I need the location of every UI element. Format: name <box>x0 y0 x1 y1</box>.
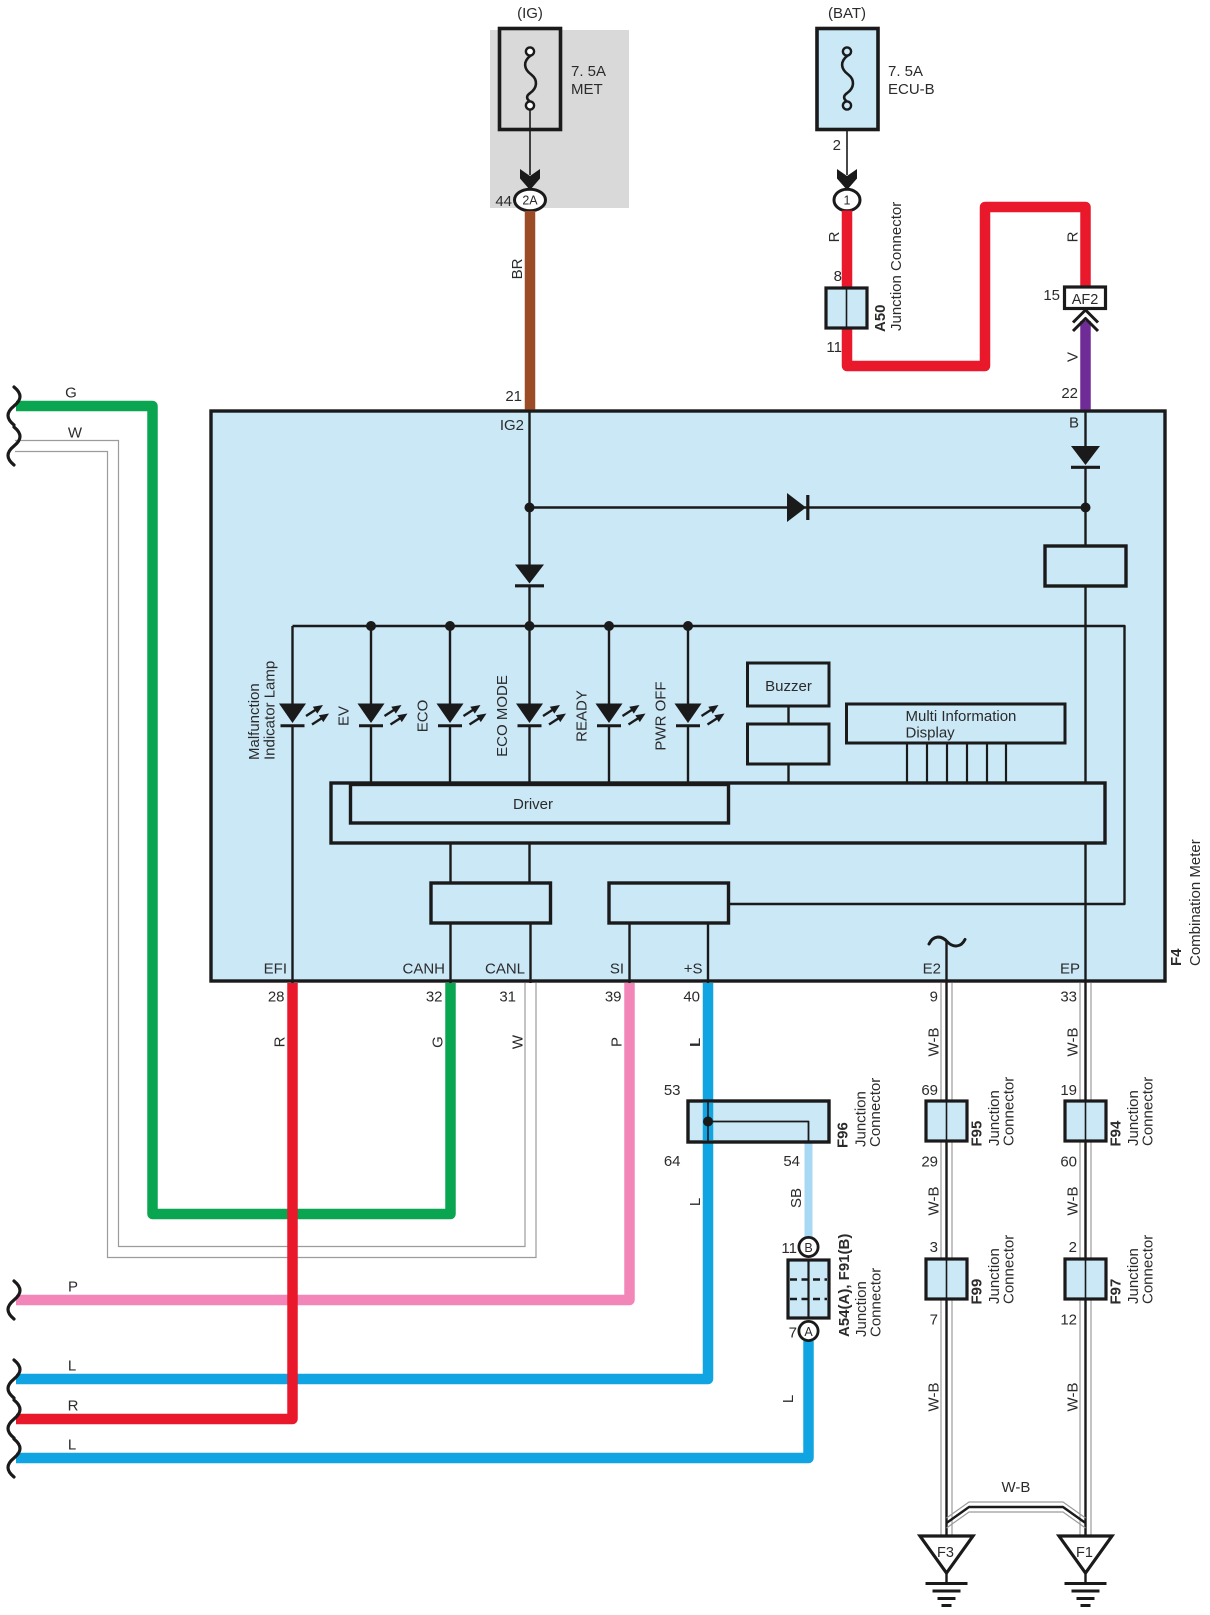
wire W-B (EP) <box>1079 983 1081 1536</box>
cross line with diode D3 <box>530 506 1086 508</box>
bus junction node x=688 <box>683 621 693 631</box>
CAN transceiver block <box>431 883 551 923</box>
LED ECO <box>437 704 487 726</box>
MID bus line x=947 <box>946 743 948 783</box>
svg-text:Driver: Driver <box>513 796 553 813</box>
svg-text:R: R <box>272 1036 289 1047</box>
svg-text:L: L <box>687 1198 704 1206</box>
serial block <box>609 883 729 923</box>
LED READY <box>596 704 646 726</box>
LED Malfunction Indicator Lamp <box>279 704 329 726</box>
svg-text:W-B: W-B <box>1065 1383 1082 1412</box>
svg-text:F1: F1 <box>1076 1545 1093 1561</box>
connector pin 1 <box>834 189 860 211</box>
svg-text:P: P <box>68 1279 78 1296</box>
wire BR <box>525 211 536 410</box>
svg-text:W-B: W-B <box>1065 1187 1082 1216</box>
break symbol / label P <box>8 1281 20 1319</box>
svg-text:W-B: W-B <box>1002 1479 1031 1496</box>
svg-text:JunctionConnector: JunctionConnector <box>986 1077 1018 1146</box>
wire SB <box>805 1142 813 1238</box>
wire fuse MET to connector 2A <box>529 110 531 176</box>
svg-text:EP: EP <box>1060 961 1080 978</box>
svg-text:44: 44 <box>495 193 512 210</box>
svg-text:R: R <box>68 1398 79 1415</box>
B internal line <box>1084 411 1086 447</box>
svg-text:L: L <box>687 1039 704 1047</box>
wire G (CANH) <box>16 406 451 1214</box>
break symbol / label L <box>8 1360 20 1398</box>
bus junction node x=371 <box>366 621 376 631</box>
svg-text:JunctionConnector: JunctionConnector <box>986 1235 1018 1304</box>
svg-text:7: 7 <box>930 1312 938 1329</box>
wire R (battery) <box>847 207 1086 366</box>
svg-text:L: L <box>780 1395 797 1403</box>
svg-text:2: 2 <box>1069 1239 1077 1256</box>
connector pin 44 / 2A <box>515 189 546 211</box>
svg-text:Display: Display <box>906 725 956 742</box>
svg-text:ECU-B: ECU-B <box>888 81 935 98</box>
LED ECO MODE column <box>528 626 530 704</box>
svg-text:Combination Meter: Combination Meter <box>1187 839 1204 966</box>
svg-text:R: R <box>1065 231 1082 242</box>
MID bus line x=1006 <box>1005 743 1007 783</box>
buzzer <box>748 663 830 706</box>
wire W (CANL) <box>15 441 525 1247</box>
svg-text:19: 19 <box>1060 1082 1077 1099</box>
svg-text:L: L <box>68 1437 76 1454</box>
svg-text:W-B: W-B <box>926 1028 943 1057</box>
ground F1 <box>1059 1536 1112 1606</box>
LED PWR OFF column <box>687 626 689 704</box>
svg-text:CANH: CANH <box>402 961 445 978</box>
svg-text:F3: F3 <box>937 1545 954 1561</box>
wire L (lower, A54) <box>16 1341 809 1458</box>
LED ECO MODE <box>516 704 566 726</box>
svg-text:33: 33 <box>1060 989 1077 1006</box>
svg-text:(IG): (IG) <box>517 5 543 22</box>
svg-text:7: 7 <box>789 1325 797 1342</box>
svg-text:2: 2 <box>833 137 841 154</box>
svg-text:8: 8 <box>834 268 842 285</box>
svg-text:22: 22 <box>1061 385 1078 402</box>
MID bus line x=967 <box>966 743 968 783</box>
svg-text:32: 32 <box>426 989 443 1006</box>
wire W-B (E2) <box>940 983 942 1536</box>
svg-text:PWR OFF: PWR OFF <box>653 681 670 750</box>
svg-text:JunctionConnector: JunctionConnector <box>1125 1077 1157 1146</box>
break symbol / label R <box>8 1400 20 1438</box>
svg-text:69: 69 <box>921 1082 938 1099</box>
svg-text:BR: BR <box>509 258 526 279</box>
svg-text:W-B: W-B <box>926 1383 943 1412</box>
bus junction node x=450 <box>445 621 455 631</box>
svg-text:EFI: EFI <box>264 961 287 978</box>
svg-text:+S: +S <box>684 961 703 978</box>
svg-text:AF2: AF2 <box>1072 292 1099 308</box>
svg-text:E2: E2 <box>923 961 941 978</box>
LED READY column <box>608 626 610 704</box>
svg-text:12: 12 <box>1060 1312 1077 1329</box>
svg-text:IG2: IG2 <box>500 417 524 434</box>
svg-text:B: B <box>1069 415 1079 432</box>
svg-text:ECO MODE: ECO MODE <box>494 675 511 757</box>
svg-text:SI: SI <box>610 961 624 978</box>
ground F3 <box>920 1536 973 1606</box>
svg-text:JunctionConnector: JunctionConnector <box>1125 1235 1157 1304</box>
resistor block <box>1045 546 1126 586</box>
svg-text:W-B: W-B <box>926 1187 943 1216</box>
buzzer driver block <box>748 724 830 764</box>
CAN transceiver feeds <box>449 843 451 883</box>
svg-text:9: 9 <box>930 989 938 1006</box>
svg-text:F96: F96 <box>835 1122 852 1148</box>
svg-text:31: 31 <box>499 989 516 1006</box>
svg-text:3: 3 <box>930 1239 938 1256</box>
svg-text:F99: F99 <box>969 1279 986 1305</box>
svg-text:29: 29 <box>921 1154 938 1171</box>
wire L (+S) <box>16 983 708 1379</box>
svg-text:JunctionConnector: JunctionConnector <box>853 1268 885 1337</box>
svg-text:39: 39 <box>605 989 622 1006</box>
break symbol / label L <box>8 1439 20 1477</box>
MID bus line x=927 <box>926 743 928 783</box>
svg-text:15: 15 <box>1043 287 1060 304</box>
combination meter F4 box <box>211 411 1165 981</box>
svg-text:CANL: CANL <box>485 961 525 978</box>
svg-text:7. 5A: 7. 5A <box>888 63 923 80</box>
svg-text:P: P <box>609 1037 626 1047</box>
wire P (SI) <box>16 983 630 1300</box>
svg-text:11: 11 <box>781 1240 797 1257</box>
svg-text:JunctionConnector: JunctionConnector <box>853 1078 885 1147</box>
LED supply bus <box>293 626 1125 904</box>
svg-text:7. 5A: 7. 5A <box>571 63 606 80</box>
svg-text:53: 53 <box>664 1082 681 1099</box>
IG2 internal line <box>528 411 530 566</box>
LED EV column <box>370 626 372 704</box>
multi information display <box>847 704 1066 743</box>
svg-text:40: 40 <box>683 989 700 1006</box>
svg-text:B: B <box>804 1241 812 1255</box>
LED ECO column <box>449 626 451 704</box>
svg-text:A: A <box>804 1325 813 1339</box>
svg-text:READY: READY <box>574 690 591 742</box>
bus junction node x=529.5 <box>525 621 535 631</box>
MID bus line x=987 <box>986 743 988 783</box>
svg-text:1: 1 <box>844 194 851 208</box>
svg-text:F94: F94 <box>1108 1120 1125 1147</box>
svg-text:F95: F95 <box>969 1121 986 1147</box>
svg-text:Buzzer: Buzzer <box>765 678 812 695</box>
svg-text:F4: F4 <box>1168 948 1185 966</box>
diode D1 (B) <box>1071 446 1100 465</box>
svg-text:W: W <box>68 425 83 442</box>
EFI / MIL column wire <box>291 626 293 704</box>
LED EV <box>358 704 408 726</box>
LED PWR OFF <box>675 704 725 726</box>
diode D2 (IG2) <box>515 565 544 584</box>
svg-text:G: G <box>430 1036 447 1048</box>
wire R (EFI) <box>16 983 293 1419</box>
wire V <box>1080 321 1091 410</box>
svg-text:54: 54 <box>783 1153 800 1170</box>
driver block <box>331 783 1105 843</box>
svg-text:(BAT): (BAT) <box>828 5 866 22</box>
svg-text:60: 60 <box>1060 1154 1077 1171</box>
gray backdrop (IG circuit) <box>490 30 629 208</box>
svg-text:2A: 2A <box>522 194 538 208</box>
svg-text:Junction Connector: Junction Connector <box>888 202 905 331</box>
shield chevrons <box>1073 310 1098 323</box>
svg-text:11: 11 <box>826 339 842 356</box>
svg-text:R: R <box>826 231 843 242</box>
svg-text:V: V <box>1065 352 1082 362</box>
svg-text:A54(A), F91(B): A54(A), F91(B) <box>836 1234 853 1337</box>
svg-text:G: G <box>65 385 77 402</box>
MID bus line x=907 <box>906 743 908 783</box>
W-B bridge between grounds <box>947 1502 1086 1518</box>
svg-text:L: L <box>68 1358 76 1375</box>
break symbol / label G <box>8 387 20 425</box>
svg-text:W-B: W-B <box>1065 1028 1082 1057</box>
svg-text:28: 28 <box>268 989 285 1006</box>
svg-text:EV: EV <box>336 706 353 726</box>
svg-text:F97: F97 <box>1108 1279 1125 1305</box>
bus junction node x=609 <box>604 621 614 631</box>
svg-text:ECO: ECO <box>415 700 432 733</box>
svg-text:A50: A50 <box>872 304 889 332</box>
svg-text:64: 64 <box>664 1153 681 1170</box>
svg-text:21: 21 <box>505 388 522 405</box>
E2 pigtail <box>929 937 965 946</box>
svg-text:SB: SB <box>788 1188 805 1208</box>
EP internal line <box>1084 586 1086 983</box>
svg-text:W: W <box>510 1034 527 1049</box>
break symbol / label W <box>8 427 20 465</box>
svg-text:MET: MET <box>571 81 603 98</box>
svg-text:Multi Information: Multi Information <box>906 708 1017 725</box>
